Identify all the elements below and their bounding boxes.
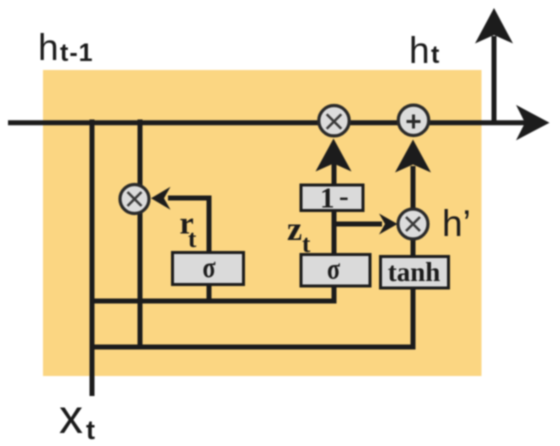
- wire: bottom bus to update gate: [90, 299, 335, 304]
- box: sigma reset gate: [173, 250, 244, 284]
- add node on main line: [398, 105, 428, 135]
- arrowhead: h_t up: [475, 8, 513, 44]
- wire: reset loop: [168, 198, 209, 255]
- arrowhead: into reset multiply: [151, 187, 171, 210]
- box: 1-: [301, 181, 363, 215]
- wire: bottom bus to tanh: [90, 286, 414, 347]
- svg-text:z: z: [287, 211, 302, 248]
- arrowhead: output right: [516, 105, 550, 140]
- svg-text:t: t: [431, 41, 440, 69]
- svg-text:h: h: [409, 30, 430, 71]
- label: r_t: [180, 205, 198, 254]
- multiply node reset gate: [120, 185, 149, 214]
- multiply node on main line: [319, 106, 349, 136]
- wire: tanh to h' multiply: [411, 238, 416, 258]
- box: tanh: [381, 257, 449, 289]
- label: h': [442, 203, 471, 244]
- GRU cell body: [43, 70, 482, 376]
- wire: h vertical to reset multiply: [138, 120, 143, 350]
- multiply node h': [398, 209, 428, 239]
- svg-text:t: t: [188, 226, 197, 253]
- svg-text:h’: h’: [442, 203, 471, 244]
- arrowhead: into main multiply: [316, 139, 352, 172]
- svg-text:σ: σ: [327, 252, 340, 285]
- svg-text:1: 1: [320, 183, 335, 215]
- svg-text:h: h: [38, 27, 59, 68]
- svg-text:t-1: t-1: [60, 39, 94, 67]
- wire: x_t input vertical: [90, 120, 95, 397]
- svg-text:t: t: [302, 231, 311, 258]
- label: z_t: [287, 211, 311, 258]
- svg-text:x: x: [59, 391, 83, 444]
- wire: h' multiply to add: [411, 166, 416, 210]
- label: h_{t-1}: [38, 27, 94, 68]
- svg-text:σ: σ: [202, 250, 215, 283]
- box: sigma update gate: [301, 252, 370, 286]
- wire: main h line: [8, 120, 532, 125]
- svg-text:t: t: [86, 415, 95, 445]
- wire: h_t up branch: [492, 36, 497, 124]
- wire: update gate stem: [332, 162, 337, 304]
- arrowhead: into h' multiply: [379, 214, 398, 235]
- svg-text:-: -: [339, 181, 349, 213]
- arrowhead: into add: [395, 140, 431, 173]
- wire: z branch to h' multiply: [334, 222, 382, 227]
- svg-text:tanh: tanh: [388, 257, 441, 287]
- label: h_t: [409, 30, 440, 71]
- label: x_t: [59, 391, 95, 445]
- wire: sigma_r bottom connector: [207, 283, 212, 304]
